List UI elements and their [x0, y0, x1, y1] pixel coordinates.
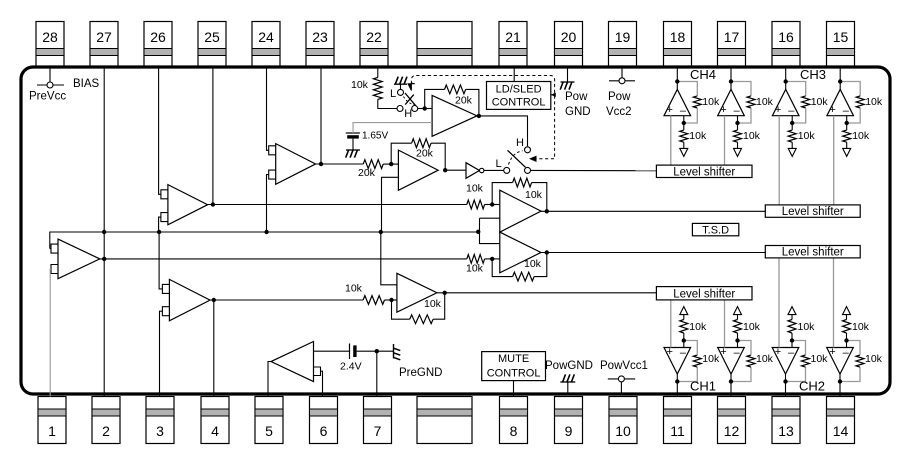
svg-text:Level shifter: Level shifter: [782, 247, 844, 259]
pin 11 (bottom): [664, 397, 692, 444]
svg-text:+: +: [775, 104, 781, 116]
svg-text:28: 28: [42, 29, 58, 45]
feedback resistor 10k of op-amp J: [492, 253, 547, 282]
pin 16 (top): [772, 22, 800, 68]
power amp CH2-A (pin 13): [772, 258, 828, 397]
svg-text:10k: 10k: [798, 130, 816, 142]
power amp CH4-A (pin 18): [664, 67, 720, 165]
svg-text:LD/SLED: LD/SLED: [496, 84, 542, 96]
feedback resistor 10k of op-amp I: [492, 178, 547, 211]
svg-text:10k: 10k: [798, 321, 816, 333]
level shifter LS2 (CH3): [765, 205, 860, 218]
svg-text:2: 2: [102, 423, 110, 439]
pin 21 (top): [499, 22, 527, 68]
svg-text:10k: 10k: [345, 283, 363, 295]
svg-text:11: 11: [670, 423, 685, 439]
svg-text:+: +: [667, 104, 673, 116]
svg-text:12: 12: [724, 423, 740, 439]
unnumbered top pin: [417, 22, 472, 68]
switch S2 throw arc (dashed): [509, 151, 523, 165]
svg-text:CONTROL: CONTROL: [492, 97, 546, 109]
wire op-amp E output to switch S2 H: [477, 116, 528, 146]
IC package body: [21, 67, 890, 394]
svg-text:10k: 10k: [852, 130, 870, 142]
svg-text:1: 1: [48, 423, 56, 439]
op-amp E: [432, 95, 477, 136]
wire 1.65V to op-amp E - input: [353, 123, 432, 133]
junction op-amp I input: [490, 202, 494, 206]
junction op-amp F output: [443, 168, 447, 172]
level shifter LS3 (CH2): [765, 246, 860, 259]
switch S2 arm: [508, 150, 526, 167]
resistor 10k op-amp I input: [466, 183, 500, 209]
level shifter LS1 (CH4): [656, 165, 752, 178]
wire 2.4V node: [357, 350, 393, 352]
svg-text:10k: 10k: [466, 263, 484, 275]
power amp CH3-A (pin 16): [772, 67, 828, 205]
pin 5 (bottom): [255, 397, 283, 444]
svg-text:10k: 10k: [524, 258, 542, 270]
wire op-amp F - input to bus: [382, 177, 399, 232]
junction bus/op-amp B-C: [157, 230, 161, 234]
label H: [404, 108, 412, 120]
pin 17 (top): [718, 22, 746, 68]
wire switch S1 to op-amp E input: [418, 108, 432, 110]
svg-text:10k: 10k: [702, 96, 720, 108]
svg-text:20k: 20k: [358, 167, 376, 179]
wire pin 24 to op-amp D + input: [267, 67, 269, 150]
pin 3 (bottom): [146, 397, 174, 444]
svg-text:10k: 10k: [525, 189, 543, 201]
wire op-amp I output to level shifter LS2: [541, 210, 765, 212]
svg-text:PreGND: PreGND: [399, 367, 442, 379]
junction op-amp H input: [389, 298, 393, 302]
svg-text:CH3: CH3: [800, 67, 826, 82]
junction op-amp B output: [211, 202, 215, 206]
svg-text:–: –: [680, 105, 687, 117]
label CH3: [800, 67, 826, 82]
op-amp F: [398, 150, 438, 190]
pin 22 (top): [360, 22, 388, 68]
wire op-amp J output to level shifter LS3: [541, 252, 765, 254]
power amp CH1-A (pin 11): [664, 300, 720, 397]
LD/SLED CONTROL block: [487, 82, 551, 110]
svg-text:CH1: CH1: [690, 379, 716, 394]
svg-text:10k: 10k: [756, 353, 774, 365]
svg-text:CH4: CH4: [690, 67, 716, 82]
bias bracket to op-amps I and J: [480, 218, 500, 243]
dashed control path from LD/SLED: [411, 76, 555, 159]
svg-text:25: 25: [204, 29, 220, 45]
svg-text:10k: 10k: [865, 353, 883, 365]
buffer U-buf: [466, 163, 484, 179]
dashed arrow into switch S1: [408, 83, 415, 91]
capacitor 2.4V: [314, 344, 362, 373]
svg-text:H: H: [404, 108, 412, 120]
svg-text:2.4V: 2.4V: [340, 361, 362, 373]
svg-text:CONTROL: CONTROL: [487, 368, 541, 380]
svg-text:10k: 10k: [702, 353, 720, 365]
svg-text:–: –: [843, 105, 850, 117]
svg-text:Pow: Pow: [608, 91, 631, 103]
wire bus to op-amp H + input: [381, 232, 397, 285]
wire op-amp A output line: [100, 258, 467, 260]
svg-text:10k: 10k: [689, 130, 707, 142]
svg-text:+: +: [667, 346, 673, 358]
wire op-amp F output to buffer: [445, 169, 466, 171]
svg-text:Pow: Pow: [565, 91, 588, 103]
pin 25 (top): [198, 22, 226, 68]
wire pin 26 to op-amp B + input: [159, 67, 161, 194]
wire MUTE CONTROL to pin 8: [513, 381, 515, 397]
svg-text:6: 6: [320, 423, 328, 439]
pin 8 (bottom): [500, 397, 528, 444]
svg-text:17: 17: [724, 29, 740, 45]
svg-text:1.65V: 1.65V: [362, 131, 388, 142]
op-amp I: [500, 190, 541, 232]
svg-text:–: –: [843, 347, 850, 359]
MUTE CONTROL block: [482, 352, 546, 381]
wire op-amp C output line: [210, 299, 363, 301]
pin 12 (bottom): [718, 397, 746, 444]
svg-text:3: 3: [156, 423, 164, 439]
junction op-amp E output: [477, 114, 481, 118]
svg-text:T.S.D: T.S.D: [702, 225, 729, 237]
pin 23 (top): [306, 22, 334, 68]
svg-text:9: 9: [565, 423, 573, 439]
feedback resistor 10k of op-amp H: [392, 293, 445, 324]
pin 1 (bottom): [38, 397, 66, 444]
wire pin27 to pin2 (through bias bus and op-amp A output): [103, 67, 105, 397]
junction op-amp H output: [443, 291, 447, 295]
wire op-amp B - input to bus: [159, 217, 161, 232]
svg-text:–: –: [788, 347, 795, 359]
svg-text:+: +: [775, 346, 781, 358]
switch S1 H contacts: [397, 106, 418, 112]
wire op-amp C output to pin 4: [213, 300, 215, 397]
label CH1: [690, 379, 716, 394]
svg-text:L: L: [390, 88, 396, 100]
svg-text:15: 15: [833, 29, 849, 45]
junction op-amp A output: [102, 257, 106, 261]
wire pin 21 to LD/SLED CONTROL: [513, 67, 515, 82]
svg-text:Level shifter: Level shifter: [673, 166, 735, 178]
svg-text:PowVcc1: PowVcc1: [600, 360, 648, 372]
Pow GND terminal (pin 20): [560, 67, 590, 118]
svg-text:10k: 10k: [689, 321, 707, 333]
svg-text:13: 13: [778, 423, 794, 439]
unnumbered bottom pin: [417, 397, 472, 444]
Pow Vcc2 terminal (pin 19): [606, 67, 635, 118]
svg-text:MUTE: MUTE: [498, 353, 529, 365]
wire op-amp A - input to pin 1: [49, 269, 52, 397]
op-amp C: [162, 279, 210, 320]
PreVcc supply terminal with BIAS label: [29, 67, 100, 103]
wire buffer to switch S2 L: [484, 169, 504, 171]
ground (L contact of LD/SLED switch): [394, 77, 407, 90]
svg-text:CH2: CH2: [799, 379, 825, 394]
pin 15 (top): [827, 22, 855, 68]
svg-text:–: –: [788, 105, 795, 117]
svg-text:7: 7: [374, 423, 382, 439]
junction op-amp J input: [490, 257, 494, 261]
svg-text:Level shifter: Level shifter: [782, 206, 844, 218]
svg-text:–: –: [734, 347, 741, 359]
pin 13 (bottom): [772, 397, 800, 444]
svg-text:Level shifter: Level shifter: [673, 288, 735, 300]
switch S2 L contact: [496, 158, 510, 173]
junction op-amp F input: [389, 162, 393, 166]
svg-text:14: 14: [833, 423, 849, 439]
junction bus end at op-amps I-J: [476, 230, 480, 234]
wire op-amp K output to pin 5: [268, 362, 271, 397]
junction bus/pin27: [102, 230, 106, 234]
junction op-amp I output: [545, 209, 549, 213]
op-amp J: [500, 232, 541, 273]
switch S1 L contact: [398, 89, 404, 95]
op-amp D: [269, 144, 316, 185]
power amp CH1-B (pin 12): [718, 300, 774, 397]
junction bus/op-amp D: [264, 230, 268, 234]
svg-text:4: 4: [211, 423, 219, 439]
wire op-amp D output line: [316, 163, 364, 165]
wire bus to op-amp C + input: [159, 232, 162, 289]
svg-text:10k: 10k: [811, 353, 829, 365]
svg-text:10k: 10k: [743, 130, 761, 142]
svg-text:20k: 20k: [416, 148, 434, 160]
power amp CH3-B (pin 15): [827, 67, 883, 205]
pin 6 (bottom): [310, 397, 338, 444]
T.S.D block: [692, 223, 738, 236]
resistor 20k op-amp F input: [358, 160, 398, 179]
svg-text:20k: 20k: [455, 95, 473, 107]
label L: [390, 88, 396, 100]
wire pin 25 to op-amp B output: [212, 67, 214, 205]
svg-text:20: 20: [561, 29, 577, 45]
svg-text:+: +: [720, 104, 726, 116]
junction op-amp D output: [319, 162, 323, 166]
svg-text:Vcc2: Vcc2: [606, 106, 632, 118]
svg-text:5: 5: [265, 423, 273, 439]
power amp CH2-B (pin 14): [827, 258, 883, 397]
switch S2 H contact: [516, 137, 531, 153]
wire op-amp D - input to bus: [267, 175, 269, 232]
junction op-amp E + input: [423, 106, 427, 110]
wire bus to op-amp A + input: [50, 248, 51, 250]
pin 4 (bottom): [201, 397, 229, 444]
svg-text:10k: 10k: [811, 96, 829, 108]
svg-text:BIAS: BIAS: [73, 78, 100, 90]
svg-text:10k: 10k: [852, 321, 870, 333]
svg-text:18: 18: [670, 29, 686, 45]
wire op-amp C - input to pin 3: [160, 311, 163, 396]
PowGND terminal (pin 9): [545, 360, 593, 394]
svg-text:PreVcc: PreVcc: [29, 91, 66, 103]
svg-text:L: L: [496, 158, 502, 170]
op-amp H: [397, 273, 437, 312]
PreGND hatch ground: [394, 344, 443, 379]
svg-text:+: +: [829, 104, 835, 116]
pin 10 (bottom): [609, 397, 637, 444]
switch S1 arm: [405, 93, 416, 106]
resistor 10k op-amp H input: [345, 283, 397, 305]
svg-text:10: 10: [615, 423, 631, 439]
svg-text:–: –: [734, 105, 741, 117]
bias bus wire y=232: [50, 232, 480, 249]
junction op-amp C output: [212, 298, 216, 302]
svg-text:10k: 10k: [865, 96, 883, 108]
junction 2.4V node to pin 7: [375, 349, 379, 353]
svg-text:+: +: [720, 346, 726, 358]
svg-text:10k: 10k: [743, 321, 761, 333]
op-amp A: [51, 239, 100, 279]
svg-text:10k: 10k: [424, 298, 442, 310]
pin 26 (top): [144, 22, 172, 68]
svg-text:19: 19: [615, 29, 631, 45]
pin 27 (top): [90, 22, 118, 68]
pin 19 (top): [609, 22, 637, 68]
wire op-amp B output line: [208, 204, 467, 206]
svg-text:GND: GND: [565, 106, 591, 118]
pin 2 (bottom): [92, 397, 120, 444]
svg-text:27: 27: [96, 29, 112, 45]
pin 14 (bottom): [827, 397, 855, 444]
feedback resistor 20k of op-amp F: [391, 139, 445, 170]
svg-text:H: H: [516, 137, 524, 149]
ground below 1.65V capacitor: [346, 139, 360, 158]
svg-text:10k: 10k: [466, 183, 484, 195]
resistor 10k from pin 22: [351, 67, 397, 109]
op-amp B: [161, 185, 208, 225]
resistor 10k op-amp J input: [466, 255, 500, 275]
pin 24 (top): [252, 22, 280, 68]
PowVcc1 terminal (pin 10): [600, 360, 648, 394]
svg-text:10k: 10k: [351, 79, 369, 91]
junction op-amp J output: [545, 250, 549, 254]
svg-text:22: 22: [366, 29, 382, 45]
pin 28 (top): [36, 22, 64, 68]
svg-text:10k: 10k: [756, 96, 774, 108]
feedback resistor 20k of op-amp E: [425, 85, 479, 116]
pin 20 (top): [555, 22, 583, 68]
svg-text:21: 21: [505, 29, 521, 45]
svg-text:16: 16: [778, 29, 794, 45]
wire switch S2 to level shifter LS1: [531, 169, 657, 171]
svg-text:26: 26: [150, 29, 166, 45]
power amp CH4-B (pin 17): [718, 67, 774, 165]
label CH2: [799, 379, 825, 394]
junction bus/op-amp F-H: [379, 230, 383, 234]
capacitor 1.65V reference: [346, 131, 389, 142]
switch S1 throw arc (dashed): [404, 97, 415, 105]
wire op-amp D output to pin 23: [320, 67, 322, 164]
wire op-amp H output to level shifter LS4: [437, 292, 657, 294]
wire pin 7: [376, 351, 378, 396]
switch S2 common contact: [525, 167, 531, 173]
pin 7 (bottom): [364, 397, 392, 444]
svg-text:24: 24: [258, 29, 274, 45]
wire op-amp K - input to pin 6: [321, 371, 323, 396]
svg-text:+: +: [829, 346, 835, 358]
op-amp K: [271, 342, 321, 382]
svg-text:–: –: [680, 347, 687, 359]
dashed arrow into switch S2: [529, 156, 537, 162]
label CH4: [690, 67, 716, 82]
svg-text:8: 8: [510, 423, 518, 439]
pin 9 (bottom): [555, 397, 583, 444]
level shifter LS4 (CH1): [656, 287, 752, 301]
pin 18 (top): [664, 22, 692, 68]
svg-text:23: 23: [312, 29, 328, 45]
svg-text:PowGND: PowGND: [545, 360, 593, 372]
